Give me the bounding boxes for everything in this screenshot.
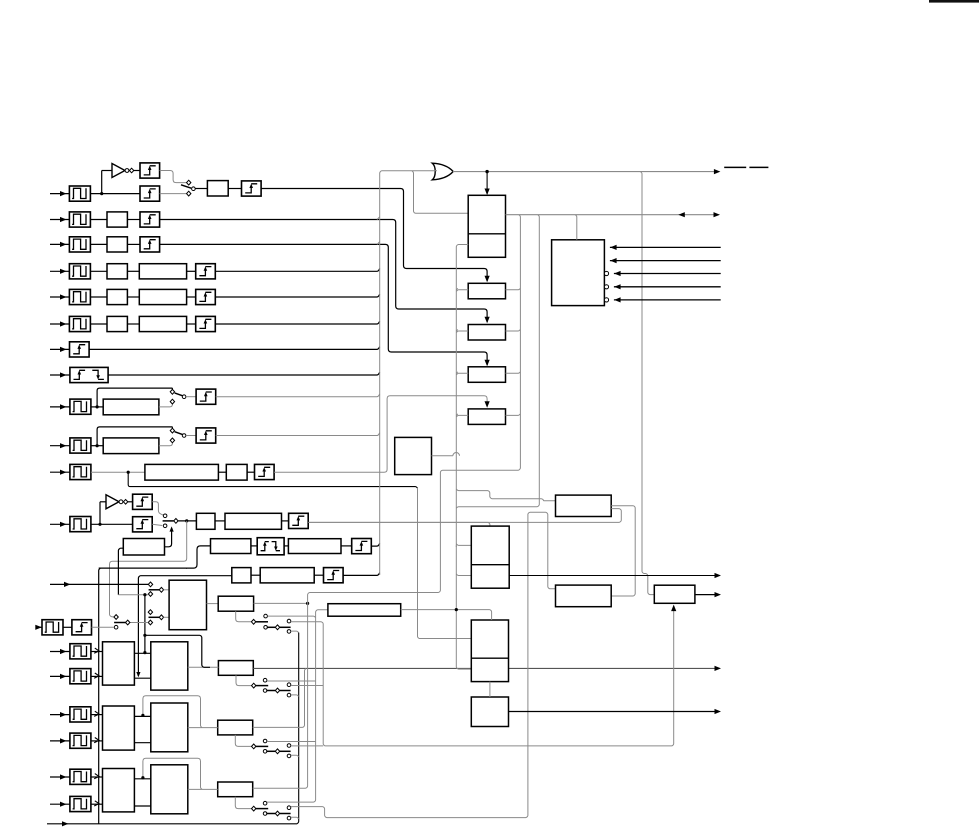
switch C1 lever <box>256 808 268 810</box>
switch A2 pivot <box>275 688 279 693</box>
wire groupB input 2 <box>50 740 70 742</box>
wire D5 to edge detector E5 <box>187 296 196 298</box>
delay block D4 <box>139 264 186 279</box>
delay block D12c <box>260 568 314 583</box>
edge detector E4 <box>196 264 216 279</box>
wire DL1 lower output loop to C1 feed line <box>309 509 621 523</box>
arrowhead into E bus <box>678 212 685 217</box>
wire groupC input 2 <box>50 803 70 805</box>
block B6 <box>107 316 127 331</box>
edge detector E9 <box>196 389 216 404</box>
wire E1b to switch SW1 lower contact <box>160 193 187 195</box>
wire row2 input <box>50 219 69 221</box>
pulse shaper PS2 <box>69 212 90 227</box>
wire output 2 <box>695 594 719 596</box>
block B12 <box>196 513 215 529</box>
block M2 <box>468 283 505 299</box>
pulse shaper PGB2 <box>70 733 91 748</box>
sequencer block F <box>169 580 206 630</box>
wire K0a to bus V5 <box>268 616 316 618</box>
wire M2 left stub <box>456 290 468 292</box>
wire bus 539 feedback u-link <box>456 215 539 509</box>
wire output 1 <box>509 575 719 577</box>
wire row3 long run to feed column <box>160 244 488 365</box>
wire SW12 to block B12 <box>178 520 196 522</box>
switch SW9 contact a <box>170 389 174 394</box>
divider block M1 <box>468 195 505 257</box>
wire bottom input line <box>47 823 297 825</box>
edge detector E8 rise+fall <box>70 367 108 382</box>
switch A2 lever <box>266 690 275 692</box>
wire row3 input <box>50 243 69 245</box>
wire row1 input <box>50 193 69 195</box>
wire feedback groupC <box>143 758 202 789</box>
wire B12r to switch node <box>165 528 172 547</box>
switch K0b lever <box>267 626 275 628</box>
wire row8 to OR bus <box>108 372 380 375</box>
wire V456 to counter C1 lower / output 1 <box>456 574 471 576</box>
measure block GA <box>103 642 135 685</box>
wire DL1 right output loop <box>611 506 635 596</box>
wire PS9 to delay D9 <box>91 406 103 408</box>
wire up to inverter <box>101 171 103 194</box>
wire bus V456 <box>456 245 471 670</box>
switch SW9 contact b <box>170 399 174 404</box>
wire PS6 to block B6 <box>90 323 107 325</box>
wire DL0 output to V456 <box>401 610 492 620</box>
wire row4 input <box>50 270 69 272</box>
edge detector E10 <box>196 428 216 443</box>
edge detector E12b <box>133 517 153 532</box>
wire groupB input 1 <box>50 714 70 716</box>
wire row8 input <box>50 374 70 376</box>
wire GC-HC upper <box>134 778 150 780</box>
wire D12b to edge detector E12e <box>341 545 352 547</box>
wire row10 input <box>50 445 70 447</box>
wire bottom line up bus V1 <box>297 633 299 824</box>
switch B2 lever <box>266 750 275 752</box>
selector S5 contact b <box>114 625 118 629</box>
delay block D12b <box>288 539 341 554</box>
arrowhead M1 output <box>714 212 721 217</box>
switch K0 contact up <box>264 614 268 618</box>
pulse shaper PGC2 <box>70 796 91 811</box>
page tab marker top right <box>929 0 979 3</box>
wire bus V5 (delay L feed) <box>267 610 328 802</box>
wire PGA1 to block <box>91 651 103 653</box>
selector S4 contact b <box>148 620 152 625</box>
wire B1 to edge detector E1c <box>228 188 241 190</box>
wire to S3 contact b <box>118 594 148 596</box>
wire row4 to OR bus <box>215 269 379 272</box>
delay block D6 <box>139 316 186 331</box>
wire M5 right stub <box>506 414 521 416</box>
block B5 <box>107 289 127 304</box>
inverter U2 <box>106 495 128 509</box>
wire row2 long run to feed column <box>160 220 488 323</box>
wire R1 input 1 <box>610 246 721 248</box>
wire NS3 down to groupA link <box>144 595 146 636</box>
wire E12b to switch SW12 contact b <box>152 524 162 525</box>
wire PGB2 to block <box>91 740 103 742</box>
wire S5 to S4 contact b <box>130 622 148 624</box>
wire B2 to edge detector E2 <box>127 219 140 221</box>
switch A2 contact b <box>287 693 291 697</box>
inverter U1 <box>112 164 134 178</box>
wire D4 to edge detector E4 <box>187 270 196 272</box>
wire SW1 to block B1 <box>195 188 207 190</box>
wire PGC2 to block <box>91 803 103 805</box>
block B3 <box>107 237 127 252</box>
wire PS11 to delay D11 <box>91 471 145 473</box>
switch K0 out contact b <box>287 630 291 634</box>
pulse shaper PGB1 <box>70 707 91 722</box>
pulse shaper PS13 <box>40 626 42 628</box>
edge detector E1b <box>140 186 160 201</box>
wire M3 left stub <box>456 331 468 333</box>
wire GB-HB lower <box>134 742 150 744</box>
wire B5 to delay D5 <box>127 296 139 298</box>
wire E1a to switch SW1 upper contact <box>160 171 187 183</box>
edge detector E12f <box>324 568 344 583</box>
arrowhead row3 <box>485 360 490 367</box>
divider M1 internal split <box>468 233 505 235</box>
wire E12a to switch SW12 contact a <box>152 502 163 515</box>
pulse shaper PS4 <box>69 264 90 279</box>
node groupA top <box>144 651 146 653</box>
switch SW10 common <box>182 434 186 438</box>
wire row13 input arrow <box>50 583 148 585</box>
switch SW1 contact a <box>187 180 191 185</box>
pulse shaper PGA1 <box>70 644 91 659</box>
wire M5 left stub <box>456 415 468 417</box>
wire E13 to S5 contact b <box>92 626 115 628</box>
block B2 <box>107 212 127 227</box>
wire row7 to OR bus <box>89 347 380 350</box>
wire M2 right stub <box>506 288 521 290</box>
edge detector E2 <box>140 212 160 227</box>
edge detector E12d rise+fall <box>257 538 284 555</box>
arrowhead R1 input 2 <box>610 258 617 263</box>
arrowhead into M2 <box>485 276 490 283</box>
pulse shaper PS1 <box>69 186 90 201</box>
wire inverter to edge detector E1a <box>134 170 140 172</box>
wire feed to block B12c and down to group A <box>138 576 231 676</box>
switch K0 out contact a <box>287 619 291 623</box>
wire PS1 to edge detector <box>90 193 140 195</box>
switch B1 contact down <box>263 750 267 754</box>
switch A2 contact a <box>287 683 291 687</box>
wire row5 input <box>50 296 69 298</box>
delay line DL1 <box>556 495 612 516</box>
wire row9 input <box>50 406 70 408</box>
arrowhead output 1 <box>715 573 722 578</box>
latch block LA <box>218 661 253 676</box>
counter block HB <box>151 703 188 752</box>
pulse shaper PGA2 <box>70 669 91 684</box>
switch SW12 contact a <box>163 514 167 518</box>
wire row9 bypass to switch upper contact <box>97 388 172 407</box>
switch K0 input <box>251 619 255 624</box>
latch block LB <box>218 720 253 735</box>
arrowhead onto groupA link <box>136 672 140 677</box>
block B4 <box>107 264 127 279</box>
selector S5 contact a <box>114 615 118 620</box>
counter C1 split <box>471 564 509 566</box>
wire into counter C2 left <box>419 638 471 640</box>
wire switch A1a to bus V5 <box>267 680 316 682</box>
wire row5 to OR bus <box>215 294 379 297</box>
wire PGC1 to block <box>91 776 103 778</box>
wire strobe feed to row12b <box>186 546 211 568</box>
edge detector E12c <box>289 513 309 528</box>
switch SW1 contact b <box>187 191 191 196</box>
edge detector E1c <box>242 181 262 196</box>
wire B12r input from S3 net <box>118 548 123 595</box>
wire HA to latch LA <box>188 666 219 668</box>
arrowhead R1 input 1 <box>610 245 617 250</box>
wire PGB1 to block <box>91 714 103 716</box>
switch C1 contact down <box>263 812 267 816</box>
delay block D10 <box>103 438 159 454</box>
block M4 <box>468 367 505 383</box>
pulse shaper PS11 <box>70 464 91 479</box>
wire switch B1a to bus V5 <box>267 741 316 743</box>
switch SW12 output <box>174 519 178 524</box>
wire row11 branch to mode bus <box>128 472 417 488</box>
wire switch B2b to V1 <box>291 755 299 757</box>
arrowhead into M5 <box>485 401 490 408</box>
wire SW9 to edge detector <box>186 396 196 398</box>
delay block D11 <box>145 464 219 480</box>
wire strobe bus vertical <box>99 568 101 824</box>
block B1 <box>207 181 228 196</box>
fillet row2 to OR bus <box>377 217 380 220</box>
block B12c <box>232 568 251 583</box>
wire row9 to OR bus <box>216 394 380 397</box>
wire node down to GA-HA link <box>144 635 146 653</box>
switch SW10 contact a <box>170 428 174 433</box>
wire GB-HB upper <box>134 715 150 717</box>
block M5 <box>468 409 505 425</box>
switch B1 input <box>252 744 256 749</box>
wire row6 to OR bus <box>215 321 379 324</box>
pulse shaper PS6 <box>69 316 90 331</box>
arrowhead up into N12 line <box>170 526 174 531</box>
wire B12b to edge pair <box>251 545 257 547</box>
wire bus V3 (latch C up to link line) <box>253 215 521 789</box>
block I <box>218 596 253 611</box>
latch block LC <box>218 782 253 797</box>
block B12r retrigger <box>123 539 164 556</box>
delay block D5 <box>139 289 186 304</box>
switch SW1 lever <box>181 185 191 188</box>
wire row12 input <box>50 523 70 525</box>
wire groupC input 1 <box>50 776 70 778</box>
switch A1 contact up <box>263 678 267 682</box>
switch A1 contact down <box>263 689 267 693</box>
selector S3 lever <box>149 589 159 591</box>
pulse shaper PS10 <box>70 438 91 453</box>
pulse shaper PGC1 <box>70 769 91 784</box>
wire bus V2 (latch B up to output 3 line) <box>253 669 306 728</box>
selector S3 output <box>159 587 163 592</box>
wire row11 to block M5 <box>274 396 487 473</box>
switch C2 pivot <box>275 811 279 816</box>
wire feedback groupA <box>145 635 210 667</box>
wire R1 input 2 <box>610 260 721 262</box>
wire OR line down to strobe block E input <box>641 172 655 595</box>
wire S3 to sequencer F <box>164 589 170 591</box>
wire D1 left input from bus V456 <box>456 489 555 501</box>
wire row12a feed line <box>308 521 488 523</box>
wire PS5 to block B5 <box>90 296 107 298</box>
arrowhead output 2 <box>715 592 722 597</box>
switch SW1 common <box>192 187 196 191</box>
wire PS4 to block B4 <box>90 270 107 272</box>
wire D9 to switch lower contact <box>159 400 173 407</box>
selector S4 lever <box>149 616 160 618</box>
wire row6 input <box>50 323 69 325</box>
wire PS3 to block B3 <box>90 243 107 245</box>
switch B2 contact a <box>287 744 291 748</box>
wire I output to bus <box>254 602 308 604</box>
switch SW12 contact b <box>163 524 167 528</box>
wire B6 to delay D6 <box>127 323 139 325</box>
switch A1 lever <box>256 685 268 687</box>
delay block D9 <box>103 399 159 415</box>
pulse shaper PS5 <box>69 289 90 304</box>
wire LA to switch cluster A <box>236 675 251 685</box>
wire D11 to block B11 <box>218 471 226 473</box>
wire K0 out b to bus V1 <box>291 631 299 633</box>
measure block GB <box>103 706 135 750</box>
wire PGA2 to block <box>91 675 103 677</box>
wire up to inverter U2 <box>99 502 101 525</box>
switch C2 contact b <box>287 816 291 820</box>
switch B1 lever <box>256 745 268 747</box>
pulse shaper PS12 <box>70 517 91 532</box>
wire U2 to edge detector E12a <box>128 501 133 503</box>
switch A1 input <box>252 683 256 688</box>
wire switch A2b to V1 <box>291 695 299 697</box>
wire GA-HA upper <box>134 652 150 654</box>
selector S4 contact a <box>148 610 152 615</box>
wire M4 left stub <box>456 373 468 375</box>
counter C2 split <box>471 657 508 659</box>
switch C1 input <box>252 806 256 811</box>
switch B1 contact up <box>263 739 267 743</box>
pulse shaper PS3 <box>69 237 90 252</box>
wire M4 right stub <box>506 372 521 374</box>
switch B2 pivot <box>275 749 279 754</box>
wire D10 to switch lower contact <box>159 439 173 446</box>
wire M1 left input from OR bus <box>412 171 468 214</box>
wire groupA input 2 <box>50 675 70 677</box>
oscillator block V <box>395 437 432 474</box>
wire M3 right stub <box>506 330 521 332</box>
wire switch A2a to V6 <box>291 685 323 687</box>
wire row12b to OR bus <box>371 543 379 546</box>
edge detector E6 <box>196 316 216 331</box>
wire R1 input 4 <box>614 286 721 288</box>
pulse shaper PS9 <box>70 399 91 414</box>
edge detector E7 <box>70 342 90 357</box>
wire PS10 to delay D10 <box>91 445 103 447</box>
arrowhead output 3 <box>715 666 722 671</box>
wire LC to switch cluster C <box>235 797 251 809</box>
selector S5 output <box>126 620 130 625</box>
edge detector E12a <box>133 494 153 509</box>
wire PS12 to edge detector E12b <box>91 523 133 525</box>
switch C1 contact up <box>263 801 267 805</box>
strobe block E <box>654 585 695 603</box>
counter block HC <box>151 765 188 814</box>
edge detector E11 <box>255 464 275 479</box>
wire R1 input 5 <box>614 299 721 301</box>
edge detector E1a <box>140 163 160 178</box>
wire V456 to counter C1 upper <box>456 544 471 546</box>
measure block GC <box>103 769 135 812</box>
wire row12c to OR bus <box>343 573 380 576</box>
switch SW9 common <box>182 395 186 399</box>
wire GA-HA lower <box>134 677 150 679</box>
arrowhead R1 input 4 <box>614 284 621 289</box>
wire SW10 to edge detector <box>186 435 196 437</box>
arrowhead into strobe block E <box>671 605 676 612</box>
block M3 <box>468 325 505 341</box>
switch SW12 lever <box>163 520 174 522</box>
switch B2 contact b <box>287 754 291 758</box>
arrowhead output 4 <box>715 709 722 714</box>
wire feedback groupB <box>143 696 202 728</box>
wire row10 bypass to switch upper contact <box>97 427 172 446</box>
wire D12 to edge detector E12c <box>282 520 289 522</box>
switch SW10 lever <box>175 432 185 436</box>
switch K0 lever <box>256 621 268 623</box>
wire switch B2a to V6 line <box>291 745 323 747</box>
wire B4 to delay D4 <box>127 270 139 272</box>
edge detector E3 <box>140 237 160 252</box>
OR gate U3 <box>432 163 453 180</box>
selector S5 lever <box>114 622 126 624</box>
wire strobe from left bus <box>99 567 187 569</box>
switch C2 lever <box>266 813 275 815</box>
arrowhead R1 input 3 <box>614 271 621 276</box>
block B12b <box>211 539 251 554</box>
wire D12c to edge detector E12f <box>314 574 323 576</box>
wire HB to latch LB <box>188 727 218 729</box>
fillet row3 to OR bus <box>377 242 380 245</box>
wire R1 input 3 <box>614 273 721 275</box>
wire row10 to OR bus <box>216 433 380 436</box>
wire HC to latch LC <box>188 788 218 790</box>
counter block C1 <box>471 526 509 588</box>
wire F to block I <box>207 603 219 605</box>
counter block HA <box>151 642 188 690</box>
wire V output to bus V456 <box>432 455 453 457</box>
wire LB to switch cluster B <box>235 735 251 747</box>
wire PS2 to block B2 <box>90 219 107 221</box>
arrowhead into M1 <box>485 189 490 196</box>
wire B3 to edge detector E3 <box>127 243 140 245</box>
wire V7 to delay D2 input <box>528 512 556 589</box>
counter block C2 <box>471 620 508 682</box>
edge detector E12e <box>352 539 372 554</box>
wire OR bus input 1 <box>380 171 437 575</box>
wire row11 input <box>50 471 70 473</box>
delay block DL0 <box>328 604 401 617</box>
